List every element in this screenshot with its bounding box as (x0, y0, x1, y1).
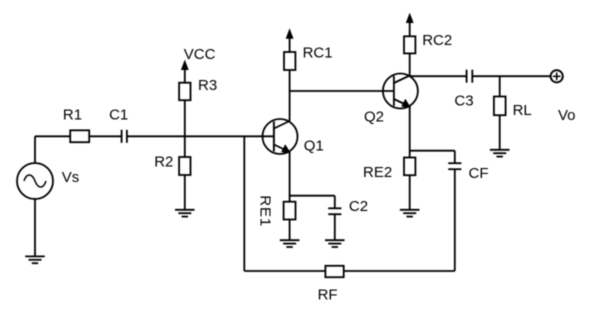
svg-text:RF: RF (318, 286, 338, 303)
ground under RL (490, 150, 510, 157)
svg-text:VCC: VCC (184, 46, 216, 63)
wire Q1 collector to Q2 base (290, 90, 394, 92)
wire emitter branch to C2 (290, 195, 335, 197)
capacitor CF (448, 163, 461, 169)
svg-text:RC1: RC1 (303, 45, 333, 62)
svg-text:Q1: Q1 (304, 138, 324, 155)
resistor RF (325, 266, 343, 277)
wire CF top (454, 151, 456, 164)
resistor RE2 (404, 158, 415, 176)
power arrow above RC1 (286, 30, 292, 52)
resistor RC1 (284, 52, 295, 70)
VCC power symbol (182, 61, 188, 83)
wire Q2 collector up (409, 53, 411, 76)
svg-text:R1: R1 (63, 107, 82, 124)
resistor RL (494, 97, 506, 116)
wire R1 to C1 (89, 135, 121, 137)
resistor RE1 (284, 202, 296, 220)
wire C2 top (334, 196, 336, 209)
svg-text:Vo: Vo (558, 107, 576, 124)
resistor R2 (179, 157, 190, 175)
wire Vs bottom (34, 199, 36, 256)
transistor Q1 (263, 119, 298, 154)
capacitor C3 (467, 70, 473, 83)
svg-text:C2: C2 (349, 198, 368, 215)
wire output (410, 75, 467, 77)
wire feedback bottom left (244, 270, 325, 272)
svg-text:Vs: Vs (62, 169, 80, 186)
svg-text:R2: R2 (154, 154, 173, 171)
capacitor C2 (328, 208, 341, 214)
wire Q1 emitter down (289, 152, 291, 202)
svg-text:CF: CF (469, 165, 489, 182)
resistor R1 (70, 130, 89, 142)
wire Q1 collector up (289, 70, 291, 121)
wire C2 to ground (334, 214, 336, 240)
wire CF down to feedback (454, 169, 456, 271)
power arrow above RC2 (407, 14, 413, 36)
wire feedback left vertical (243, 136, 245, 271)
svg-text:RE1: RE1 (256, 195, 273, 227)
wire C1 to Q1 base (127, 135, 274, 137)
svg-text:RC2: RC2 (422, 32, 452, 49)
wire R2 to ground (184, 175, 186, 210)
ground under RE2 (400, 210, 420, 217)
wire Vs to R1 (35, 135, 70, 137)
svg-text:C1: C1 (109, 107, 128, 124)
svg-text:RL: RL (513, 102, 532, 119)
wire Vs top (34, 136, 36, 163)
wire RL top (499, 76, 501, 96)
svg-text:Q2: Q2 (364, 109, 384, 126)
svg-text:R3: R3 (198, 77, 217, 94)
wire RL to ground (499, 115, 501, 150)
wire R3 to R2 (184, 100, 186, 157)
svg-text:RE2: RE2 (363, 164, 392, 181)
wire C3 to Vo (472, 75, 550, 77)
wire emitter branch to CF (410, 150, 455, 152)
ground under C2 (325, 240, 345, 247)
wire feedback bottom right (344, 270, 455, 272)
ground under Vs (25, 256, 45, 263)
resistor R3 (179, 83, 190, 101)
ground under R2 (175, 210, 195, 217)
wire RE1 to ground (289, 220, 291, 241)
transistor Q2 (383, 74, 418, 109)
ground under RE1 (280, 240, 300, 247)
voltage source Vs (17, 163, 53, 199)
svg-text:C3: C3 (454, 92, 473, 109)
wire Q2 emitter down (409, 107, 411, 158)
capacitor C1 (122, 130, 127, 143)
resistor RC2 (404, 36, 415, 53)
output port Vo (551, 70, 563, 82)
wire RE2 to ground (409, 175, 411, 210)
